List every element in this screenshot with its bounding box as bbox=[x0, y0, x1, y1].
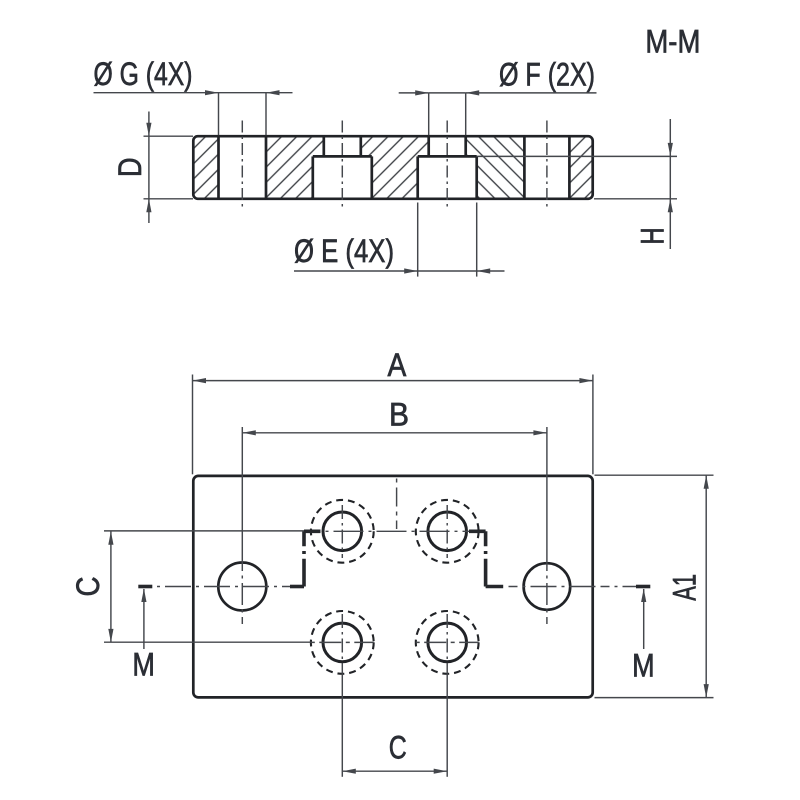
svg-text:D: D bbox=[112, 157, 148, 177]
svg-text:Ø G (4X): Ø G (4X) bbox=[94, 56, 193, 92]
svg-text:B: B bbox=[389, 397, 409, 433]
svg-text:M: M bbox=[132, 646, 155, 682]
svg-text:H: H bbox=[635, 228, 671, 245]
svg-text:A: A bbox=[388, 347, 407, 383]
svg-text:C: C bbox=[389, 730, 407, 766]
svg-text:C: C bbox=[70, 577, 106, 597]
svg-text:M: M bbox=[632, 648, 655, 684]
svg-text:Ø F (2X): Ø F (2X) bbox=[499, 57, 595, 93]
svg-text:M-M: M-M bbox=[645, 24, 700, 60]
svg-text:A1: A1 bbox=[666, 574, 702, 601]
svg-text:Ø E (4X): Ø E (4X) bbox=[294, 233, 394, 269]
